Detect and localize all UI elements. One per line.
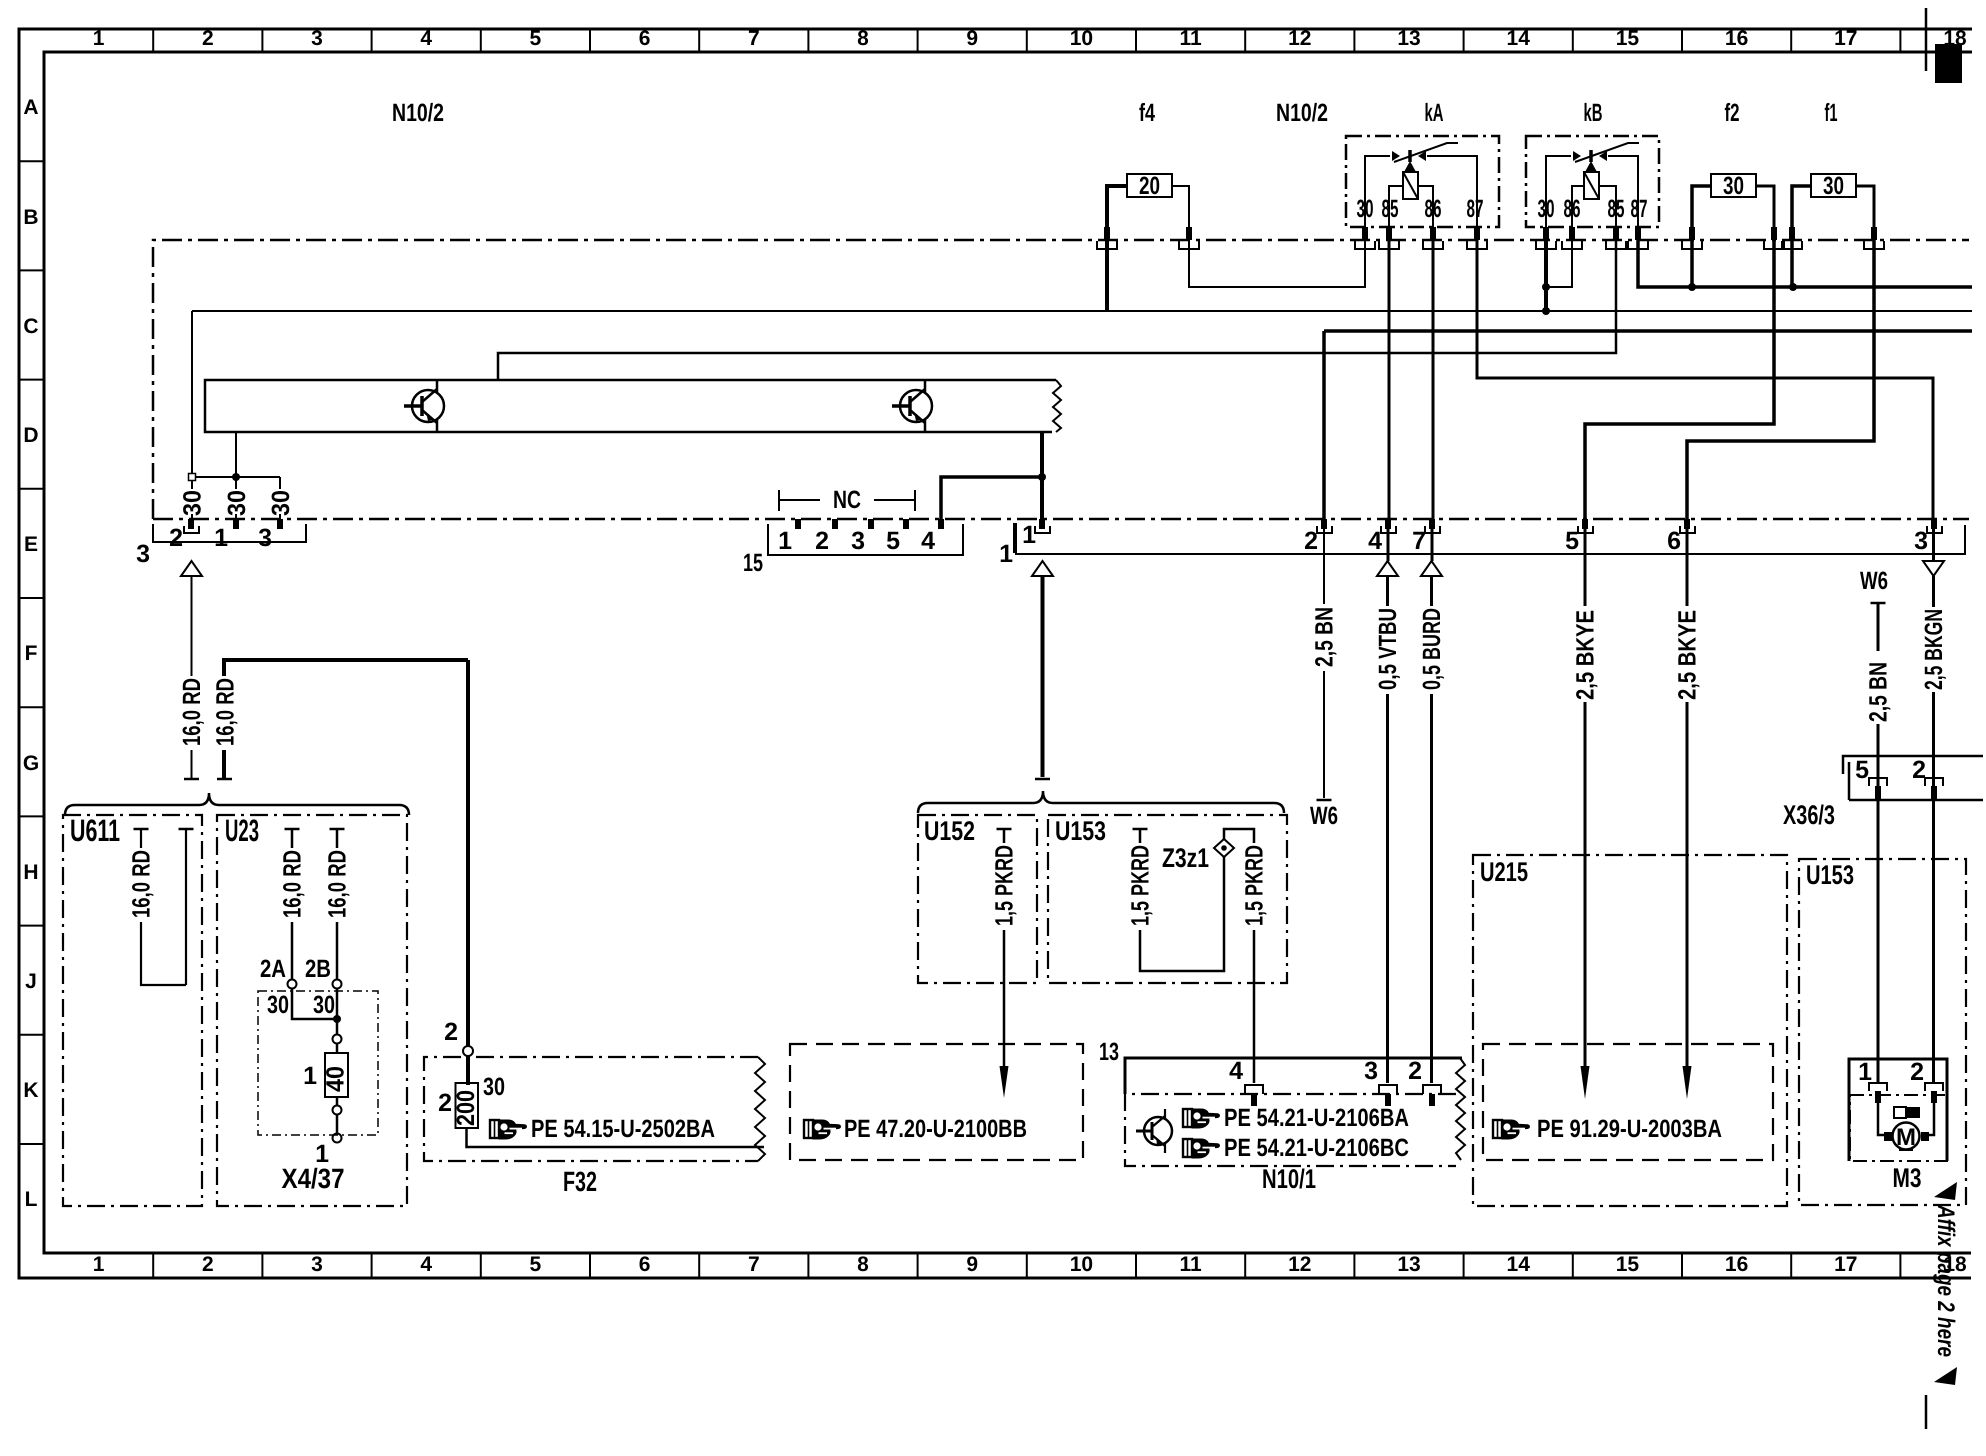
pin 6 right connector [1680, 519, 1695, 533]
svg-text:30: 30 [179, 490, 207, 516]
pin f4-left at N10/2 boundary [1097, 227, 1117, 249]
contact circle below fuse [333, 1106, 342, 1115]
MIDWIRES [65, 529, 1948, 1099]
hand symbol F32 [490, 1120, 526, 1139]
wire kB-30 drop to bus line [1544, 240, 1548, 311]
svg-text:10: 10 [1070, 27, 1093, 50]
svg-text:11: 11 [1179, 1253, 1202, 1276]
wire f2 left lead [1692, 186, 1711, 228]
wire pin6 down (2,5 BKYE) [1686, 529, 1689, 1066]
wire f4 right lead [1172, 186, 1189, 228]
svg-text:13: 13 [1397, 27, 1420, 50]
svg-text:C: C [23, 315, 38, 338]
wire kA-85 drop to connector pin4 [1388, 240, 1391, 519]
transistor T1 in output stage [404, 381, 444, 431]
svg-text:12: 12 [1288, 1253, 1311, 1276]
svg-text:1: 1 [999, 540, 1013, 568]
terminal bar U153 wire [1133, 828, 1148, 831]
svg-text:86: 86 [1425, 195, 1442, 223]
pin 1 left connector [233, 519, 239, 529]
fuse f4 (20A) [1127, 174, 1172, 197]
svg-text:X36/3: X36/3 [1783, 800, 1835, 830]
connector 15 bracket [768, 524, 963, 555]
relay kB box [1526, 136, 1659, 227]
pin kB-87 at N10/2 boundary [1628, 227, 1648, 249]
arrow into U215 (pin6 wire) [1683, 1066, 1692, 1099]
svg-text:20: 20 [1139, 172, 1160, 200]
hand symbol U215 [1493, 1120, 1529, 1139]
box U152 [918, 815, 1037, 983]
terminal bar left wire [184, 778, 199, 781]
svg-text:2: 2 [444, 1018, 458, 1046]
svg-text:PE 47.20-U-2100BB: PE 47.20-U-2100BB [844, 1115, 1027, 1143]
svg-text:Z3z1: Z3z1 [1162, 843, 1209, 873]
pin 5 X36/3 [1869, 778, 1887, 799]
svg-text:PE 54.15-U-2502BA: PE 54.15-U-2502BA [531, 1115, 715, 1143]
junction f2-left on 30 rail [1688, 283, 1696, 291]
fuse 40 (X4/37) [325, 1053, 348, 1097]
contact circle 2B [333, 980, 342, 989]
svg-text:1,5 PKRD: 1,5 PKRD [991, 845, 1019, 926]
svg-text:2: 2 [1912, 756, 1926, 784]
wire kB-86 jumper to kB-30 [1546, 240, 1572, 287]
wire pin2-left down (16,0 RD) [191, 576, 193, 779]
svg-text:1,5 PKRD: 1,5 PKRD [1127, 845, 1155, 926]
box N10/1 top band [1125, 1058, 1462, 1094]
wire pin3 down (2,5 BKGN) [1932, 529, 1935, 1082]
svg-text:2: 2 [438, 1089, 452, 1117]
wire f2-left drop [1690, 240, 1694, 287]
svg-text:16,0 RD: 16,0 RD [212, 678, 240, 746]
relay kA pin labels 30 85 86 87 [1357, 195, 1484, 223]
pin f2-right at N10/2 boundary [1764, 227, 1784, 249]
svg-text:16: 16 [1725, 1253, 1748, 1276]
svg-text:2: 2 [815, 527, 829, 555]
svg-text:3: 3 [136, 540, 150, 568]
wire f4-right to kA-30 (net 30 feed) [1189, 240, 1365, 287]
svg-text:16,0 RD: 16,0 RD [324, 850, 352, 918]
terminal bar U23 wire d [330, 828, 345, 831]
reversing contact black [1906, 1107, 1920, 1118]
svg-text:3: 3 [1364, 1057, 1378, 1085]
svg-text:B: B [23, 206, 38, 229]
long connector bracket to right edge [1015, 525, 1965, 554]
svg-text:30: 30 [1357, 195, 1374, 223]
svg-text:85: 85 [1608, 195, 1625, 223]
AFFIX [1926, 1182, 1959, 1429]
wire pin4 down (0,5 VTBU) [1386, 529, 1390, 1083]
arrow into PE47 box [1000, 1066, 1009, 1098]
svg-text:f2: f2 [1725, 99, 1740, 127]
wire 2A jumper [292, 988, 337, 1019]
wire bus rect drop to 30-pins manifold [235, 432, 237, 477]
wire below fuse 40 [336, 1097, 339, 1133]
BOTTOM [63, 756, 1983, 1206]
pin 5 right connector [1578, 519, 1593, 533]
junction 2A/2B [333, 1015, 341, 1023]
svg-text:L: L [25, 1188, 38, 1211]
svg-text:Affix page 2 here: Affix page 2 here [1932, 1204, 1959, 1357]
affix marker top triangle [1934, 1182, 1957, 1200]
svg-text:U153: U153 [1055, 816, 1106, 846]
svg-text:12: 12 [1288, 27, 1311, 50]
wire to fuse 40 [336, 1044, 339, 1053]
box PE 91.29 (dashed) [1483, 1044, 1773, 1160]
pin 2 left connector [184, 519, 199, 533]
svg-text:30: 30 [1538, 195, 1555, 223]
bus line from pin 2 (ground rail) [1324, 329, 1972, 333]
fuse f1 (30A) [1811, 174, 1856, 197]
ruler numbers top [93, 27, 1967, 50]
pin 2 N10/1 [1423, 1085, 1441, 1106]
fold line top right [1925, 8, 1928, 71]
wire U153 (1,5 PKRD) [1140, 829, 1224, 971]
svg-text:30: 30 [223, 490, 251, 516]
svg-text:kB: kB [1584, 99, 1603, 127]
svg-text:PE 91.29-U-2003BA: PE 91.29-U-2003BA [1537, 1115, 1722, 1143]
relay kA coil [1389, 172, 1433, 228]
svg-text:30: 30 [267, 991, 289, 1019]
bus line (terminal 30 internal rail) [192, 310, 1972, 312]
svg-text:16,0 RD: 16,0 RD [128, 850, 156, 918]
svg-text:4: 4 [420, 27, 432, 50]
ROWE [136, 486, 1965, 577]
svg-text:85: 85 [1382, 195, 1399, 223]
pin 3 N10/1 [1379, 1085, 1397, 1106]
control unit N10/2 box [153, 240, 1969, 519]
ruler numbers bottom [93, 1253, 1967, 1276]
svg-text:0,5 BURD: 0,5 BURD [1418, 608, 1446, 690]
svg-text:3: 3 [851, 527, 865, 555]
svg-text:1: 1 [1022, 521, 1036, 549]
svg-text:16,0 RD: 16,0 RD [279, 850, 307, 918]
box U611 [63, 815, 202, 1206]
svg-text:A: A [23, 96, 38, 119]
pin kB-86 at N10/2 boundary [1562, 227, 1582, 249]
svg-text:NC: NC [833, 486, 861, 514]
svg-text:f1: f1 [1825, 99, 1838, 127]
svg-text:U153: U153 [1806, 860, 1854, 890]
TOPCOMP [153, 99, 1969, 519]
brace over U152/U153 [918, 791, 1284, 813]
svg-text:N10/2: N10/2 [1276, 99, 1328, 127]
svg-text:1: 1 [1858, 1058, 1872, 1086]
wire f2 right lead [1756, 186, 1774, 228]
fuse f2 (30A) [1711, 174, 1756, 197]
hand symbol N10/1 a [1183, 1109, 1219, 1128]
affix fold line bottom [1925, 1395, 1928, 1429]
svg-text:kA: kA [1425, 99, 1444, 127]
svg-text:K: K [23, 1079, 38, 1102]
svg-text:1: 1 [778, 527, 792, 555]
svg-text:3: 3 [1914, 527, 1928, 555]
svg-text:5: 5 [1855, 756, 1869, 784]
terminal bar second wire [217, 778, 232, 781]
svg-text:W6: W6 [1310, 802, 1338, 830]
pin 1 M3 [1869, 1083, 1887, 1103]
svg-text:2B: 2B [305, 955, 331, 983]
pin 2 M3 [1925, 1083, 1943, 1103]
relay kB switch [1546, 143, 1639, 228]
svg-text:5: 5 [530, 27, 542, 50]
box N10/1 dash-dot [1125, 1094, 1456, 1166]
pin 3 of connector 15 [868, 519, 874, 529]
svg-text:17: 17 [1834, 1253, 1857, 1276]
torn edge N10/1 [1456, 1058, 1465, 1160]
wire kA-87 step to connector pin3 [1477, 240, 1933, 519]
wire M3 pin1 to motor [1878, 1103, 1886, 1135]
svg-text:6: 6 [639, 27, 651, 50]
pin 3 left connector [277, 519, 283, 529]
svg-text:2,5 BN: 2,5 BN [1865, 662, 1893, 722]
pin 4 right connector [1381, 519, 1396, 533]
pin labels 2 4 7 5 6 3 [1304, 527, 1928, 555]
svg-text:4: 4 [921, 527, 935, 555]
svg-text:30: 30 [483, 1073, 505, 1101]
svg-text:3: 3 [258, 524, 272, 552]
pin kB-30 at N10/2 boundary [1536, 227, 1556, 249]
svg-text:M3: M3 [1893, 1163, 1922, 1193]
svg-text:30: 30 [313, 991, 335, 1019]
svg-text:5: 5 [1565, 527, 1579, 555]
pin kA-87 at N10/2 boundary [1467, 227, 1487, 249]
connector M3 housing [1849, 1059, 1947, 1161]
svg-text:2,5 BKYE: 2,5 BKYE [1674, 610, 1702, 700]
triangle node pin3 (inverted) [1923, 561, 1944, 576]
svg-text:f4: f4 [1139, 99, 1155, 127]
connector 1 tick [1013, 523, 1017, 553]
svg-text:M: M [1896, 1124, 1916, 1151]
svg-text:2: 2 [202, 1253, 214, 1276]
junction pin4-jumper on pin1 drop [1038, 473, 1046, 481]
BUSES [179, 240, 1973, 519]
transistor N10/1 [1136, 1109, 1172, 1153]
pin 3 right connector [1927, 519, 1942, 533]
svg-text:2: 2 [1304, 527, 1318, 555]
svg-text:30: 30 [267, 490, 295, 516]
pin kA-30 at N10/2 boundary [1355, 227, 1375, 249]
wire left bus riser to 30-pins [191, 311, 193, 477]
triangle node pin1-mid [1032, 561, 1053, 576]
pin f1-right at N10/2 boundary [1864, 227, 1884, 249]
svg-text:2: 2 [169, 524, 183, 552]
box U153 (bottom right) [1799, 859, 1966, 1205]
output stage bus rectangle [205, 380, 1056, 432]
wire U611 b [185, 829, 187, 985]
svg-text:15: 15 [1616, 1253, 1640, 1276]
svg-text:G: G [23, 752, 39, 775]
wire f1 left lead [1792, 186, 1811, 228]
reversing contact white [1894, 1107, 1906, 1118]
wire f4 left lead [1107, 186, 1127, 228]
svg-text:6: 6 [1667, 527, 1681, 555]
pin labels 4 3 2 [1229, 1057, 1422, 1085]
svg-text:8: 8 [857, 27, 869, 50]
pin f4-right at N10/2 boundary [1179, 227, 1199, 249]
svg-text:30: 30 [1823, 172, 1844, 200]
contact circle 2 of F32 [463, 1046, 473, 1056]
affix marker bottom triangle [1934, 1367, 1957, 1385]
svg-text:F32: F32 [563, 1166, 597, 1197]
ruler bottom dividers [153, 1253, 1900, 1278]
wire kB-87 to fuses f2/f1 (net 30 rail) [1638, 240, 1972, 287]
wire kA-86 drop to connector pin7 [1432, 240, 1435, 519]
svg-text:0,5 VTBU: 0,5 VTBU [1374, 608, 1402, 690]
svg-text:8: 8 [857, 1253, 869, 1276]
wire U23 d (16,0 RD) [336, 829, 339, 979]
pin 2 right connector [1317, 519, 1332, 533]
wire pin2-right down (2,5 BN) [1323, 529, 1325, 798]
wire kB-85 to output stage rail [498, 240, 1616, 380]
relay kB pin labels 30 86 85 87 [1538, 195, 1648, 223]
svg-text:6: 6 [639, 1253, 651, 1276]
box X4/37 (fuse holder) [258, 991, 378, 1135]
wire f2-right step to connector pin5 [1585, 240, 1774, 519]
wire drop to F32 fuse [466, 660, 470, 1046]
svg-text:11: 11 [1179, 27, 1202, 50]
bus rectangle torn edge [1053, 380, 1061, 432]
svg-text:U611: U611 [70, 813, 120, 848]
fold mark black rectangle [1935, 44, 1962, 83]
junction f1-left on 30 rail [1789, 283, 1797, 291]
wire F32 feed to U23 (16,0 RD) [224, 660, 468, 779]
NC bracket [779, 486, 915, 514]
transistor T2 in output stage [892, 381, 932, 431]
terminal bar U611 wire b [179, 828, 194, 831]
svg-text:2,5 BN: 2,5 BN [1311, 607, 1339, 667]
box U23 [217, 815, 407, 1206]
svg-text:H: H [23, 861, 38, 884]
triangle node pin4 [1377, 561, 1398, 576]
svg-text:4: 4 [420, 1253, 432, 1276]
relay kB coil [1572, 172, 1616, 228]
pin 5 of connector 15 [903, 519, 909, 529]
triangle node pin7 [1421, 561, 1442, 576]
brace over U611/U23 [65, 793, 409, 815]
relay kA switch [1365, 143, 1477, 228]
terminal bar pin1 wire [1035, 778, 1050, 781]
svg-text:U23: U23 [225, 813, 259, 848]
wire into fuse F32 [466, 1056, 470, 1085]
svg-text:40: 40 [322, 1066, 350, 1092]
wire below fuse F32 [467, 1128, 765, 1147]
svg-text:9: 9 [966, 1253, 978, 1276]
svg-text:16,0 RD: 16,0 RD [178, 678, 206, 746]
junction manifold mid [232, 473, 240, 481]
splice Z3z1 [1214, 839, 1234, 857]
wire Z3z1 to N10/1 pin4 (1,5 PKRD) [1224, 829, 1254, 1083]
pin kB-85 at N10/2 boundary [1606, 227, 1626, 249]
svg-text:3: 3 [311, 27, 323, 50]
svg-text:13: 13 [1099, 1038, 1119, 1066]
wire connector pin4 jumper [941, 477, 1042, 519]
box U153 (middle) [1048, 815, 1287, 983]
svg-text:87: 87 [1631, 195, 1648, 223]
svg-text:PE 54.21-U-2106BA: PE 54.21-U-2106BA [1224, 1104, 1409, 1132]
svg-text:5: 5 [886, 527, 900, 555]
hand symbol PE47 [804, 1120, 840, 1139]
wire W6 down (2,5 BN) [1877, 603, 1880, 1082]
wire pin5 down (2,5 BKYE) [1584, 529, 1587, 1066]
ruler left dividers [19, 161, 44, 1144]
svg-text:N10/2: N10/2 [392, 99, 444, 127]
pin 7 right connector [1425, 519, 1440, 533]
svg-text:86: 86 [1564, 195, 1581, 223]
svg-text:5: 5 [530, 1253, 542, 1276]
box U215 [1473, 855, 1787, 1206]
svg-text:3: 3 [311, 1253, 323, 1276]
svg-text:15: 15 [1616, 27, 1640, 50]
svg-text:2,5 BKGN: 2,5 BKGN [1920, 609, 1948, 690]
svg-text:W6: W6 [1860, 567, 1888, 595]
svg-text:U152: U152 [924, 816, 975, 846]
svg-text:30: 30 [1723, 172, 1744, 200]
wire M3 pin2 to motor [1927, 1103, 1934, 1135]
box PE 47.20 (dashed) [790, 1044, 1083, 1160]
wire U611 a (16,0 RD) [141, 829, 186, 985]
svg-text:7: 7 [748, 27, 760, 50]
svg-text:87: 87 [1467, 195, 1484, 223]
svg-text:F: F [25, 642, 38, 665]
hand symbol N10/1 b [1183, 1139, 1219, 1158]
terminal bar U152 wire [997, 828, 1012, 831]
pin 2 X36/3 [1925, 778, 1943, 799]
svg-text:14: 14 [1507, 1253, 1531, 1276]
svg-text:2: 2 [1910, 1058, 1924, 1086]
fuse 200 (F32) [456, 1083, 479, 1128]
svg-text:E: E [24, 533, 38, 556]
relay kA box [1346, 136, 1499, 227]
junction manifold left [189, 474, 196, 481]
svg-text:2A: 2A [260, 955, 286, 983]
arrow into U215 (pin5 wire) [1581, 1066, 1590, 1099]
svg-text:1: 1 [303, 1062, 317, 1090]
svg-text:9: 9 [966, 27, 978, 50]
svg-text:1: 1 [93, 1253, 105, 1276]
terminal bar U23 wire c [285, 828, 300, 831]
wire 30-pins manifold [192, 477, 280, 519]
svg-text:16: 16 [1725, 27, 1748, 50]
svg-text:200: 200 [452, 1090, 480, 1126]
pin kA-86 at N10/2 boundary [1423, 227, 1443, 249]
connector X left (pins 2 1 3) bracket [153, 524, 306, 542]
svg-text:1,5 PKRD: 1,5 PKRD [1241, 845, 1269, 926]
svg-text:1: 1 [93, 27, 105, 50]
triangle node pin2-left [181, 561, 202, 576]
pin 4 of connector 15 [938, 519, 944, 529]
svg-text:4: 4 [1368, 527, 1382, 555]
svg-text:2: 2 [1408, 1057, 1422, 1085]
pin labels 1 2 3 5 4 [778, 527, 935, 555]
svg-text:7: 7 [1412, 527, 1426, 555]
junction kB-30/86 [1542, 283, 1550, 291]
wire f4-left down to bus line [1105, 240, 1109, 311]
svg-text:PE 54.21-U-2106BC: PE 54.21-U-2106BC [1224, 1134, 1409, 1162]
pin f1-left at N10/2 boundary [1782, 227, 1802, 249]
svg-text:13: 13 [1397, 1253, 1420, 1276]
terminal bar U611 wire a [134, 828, 149, 831]
box F32 (dash-dot with torn right edge) [424, 1057, 758, 1161]
terminal bar W6 right [1871, 602, 1886, 605]
contact circle fuse top [333, 1035, 342, 1044]
wire f1 right lead [1856, 186, 1874, 228]
wire U23 c (16,0 RD) [291, 829, 294, 979]
svg-text:N10/1: N10/1 [1262, 1164, 1316, 1194]
wire U152 (1,5 PKRD) [1003, 829, 1006, 1066]
svg-text:2: 2 [202, 27, 214, 50]
wire f1-right step to connector pin6 [1687, 240, 1874, 519]
svg-text:U215: U215 [1480, 857, 1528, 887]
